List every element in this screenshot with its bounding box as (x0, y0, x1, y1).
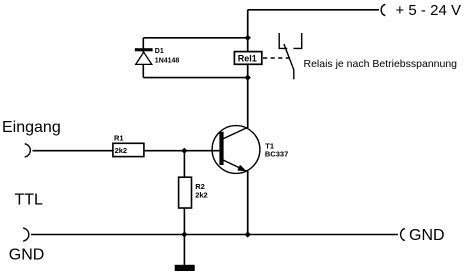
wire V+ top rail (248, 9, 379, 11)
wire D1 loop top (143, 37, 247, 39)
wire input to R1 (33, 150, 113, 152)
T1 base bar (219, 132, 223, 165)
svg-text:Relais je nach Betriebsspannun: Relais je nach Betriebsspannung (304, 58, 458, 70)
wire to ground symbol (183, 235, 185, 266)
wire Rel1 to collector (247, 64, 249, 128)
relay contact moving arm (284, 44, 294, 79)
svg-text:BC337: BC337 (265, 150, 288, 159)
connector pin GND right (401, 228, 405, 240)
svg-text:D1: D1 (155, 48, 164, 55)
connector pin +5-24V (381, 4, 385, 15)
svg-text:+ 5 - 24 V: + 5 - 24 V (396, 2, 461, 19)
node junction bottom of relay coil (245, 75, 251, 81)
resistor R1 (113, 133, 144, 156)
transistor T1 (212, 126, 288, 174)
relay coil Rel1 (234, 52, 261, 65)
node junction base/R2 (181, 148, 187, 154)
T1 body circle (212, 126, 260, 174)
wire junction down to R2 (183, 151, 185, 178)
wire emitter to ground rail (247, 171, 249, 235)
relay contact left fixed terminal (279, 33, 287, 48)
node junction top of relay coil (245, 35, 251, 41)
svg-text:GND: GND (409, 227, 445, 244)
wire D1 loop bottom (143, 77, 247, 79)
wire main vertical: top to Rel1 (247, 10, 249, 52)
connector pin Eingang (25, 144, 31, 157)
svg-text:2k2: 2k2 (195, 190, 208, 199)
svg-text:2k2: 2k2 (115, 146, 128, 155)
svg-text:Rel1: Rel1 (238, 53, 257, 63)
node junction emitter/ground (245, 231, 251, 237)
D1 cathode bar (135, 48, 153, 51)
svg-text:1N4148: 1N4148 (155, 58, 180, 65)
T1 collector lead (222, 127, 249, 139)
svg-text:R1: R1 (114, 133, 124, 142)
resistor R2 (179, 177, 208, 208)
wire D1 left vertical (142, 38, 144, 78)
wire ground rail (31, 234, 398, 236)
dashed actuation link (263, 57, 290, 59)
wire R1 to base (144, 150, 220, 152)
T1 emitter lead (222, 159, 247, 171)
svg-text:GND: GND (9, 246, 45, 263)
relay contact right fixed terminal (294, 33, 302, 48)
diode D1 (135, 48, 180, 65)
connector pin GND left (23, 228, 29, 241)
D1 anode triangle (136, 52, 152, 64)
svg-text:Eingang: Eingang (2, 119, 61, 136)
wire R2 to ground rail (183, 208, 185, 235)
svg-text:TTL: TTL (15, 192, 44, 209)
T1 emitter arrow (237, 165, 247, 172)
ground (175, 265, 195, 271)
node junction R2/ground (181, 231, 187, 237)
